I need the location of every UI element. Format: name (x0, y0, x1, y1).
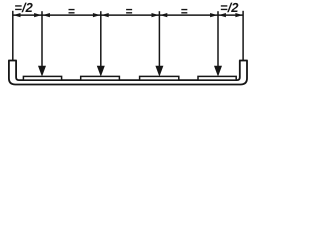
load arrow 3 head (155, 66, 163, 77)
tray left wall top cap (8, 60, 16, 62)
pad 4 (198, 76, 236, 80)
extension line right (tick at x=243.1) (242, 11, 244, 61)
dim arrowheads at tick x=42 (34, 13, 41, 17)
dim arrowheads at tick x=218 (210, 13, 217, 17)
label = segment 2 (69, 9, 75, 14)
load arrow 3 shaft (158, 11, 160, 67)
dim arrowhead at left end pointing left (13, 13, 20, 17)
extension line left (tick at x=12.8) (12, 11, 14, 61)
dim arrowhead at right end pointing right (235, 13, 242, 17)
label = segment 4 (181, 9, 187, 14)
pad 1 (23, 76, 61, 80)
load arrow 4 head (214, 66, 222, 77)
load arrow 1 shaft (41, 11, 43, 67)
dim arrowheads at tick x=159.4 (152, 13, 159, 17)
pad 2 (81, 76, 120, 80)
label = segment 3 (126, 9, 132, 14)
dimension line (13, 14, 243, 16)
label =/2 segment 1 (15, 3, 33, 13)
pad 3 (140, 76, 179, 80)
load arrow 2 head (97, 66, 105, 77)
tray right wall top cap (239, 60, 247, 62)
tray inner contour (16, 60, 240, 80)
label =/2 segment 5 (221, 3, 239, 13)
load arrow 2 shaft (100, 11, 102, 67)
tray outer contour (9, 60, 247, 84)
dim arrowheads at tick x=100.8 (93, 13, 100, 17)
load arrow 1 head (38, 66, 46, 77)
load arrow 4 shaft (217, 11, 219, 67)
